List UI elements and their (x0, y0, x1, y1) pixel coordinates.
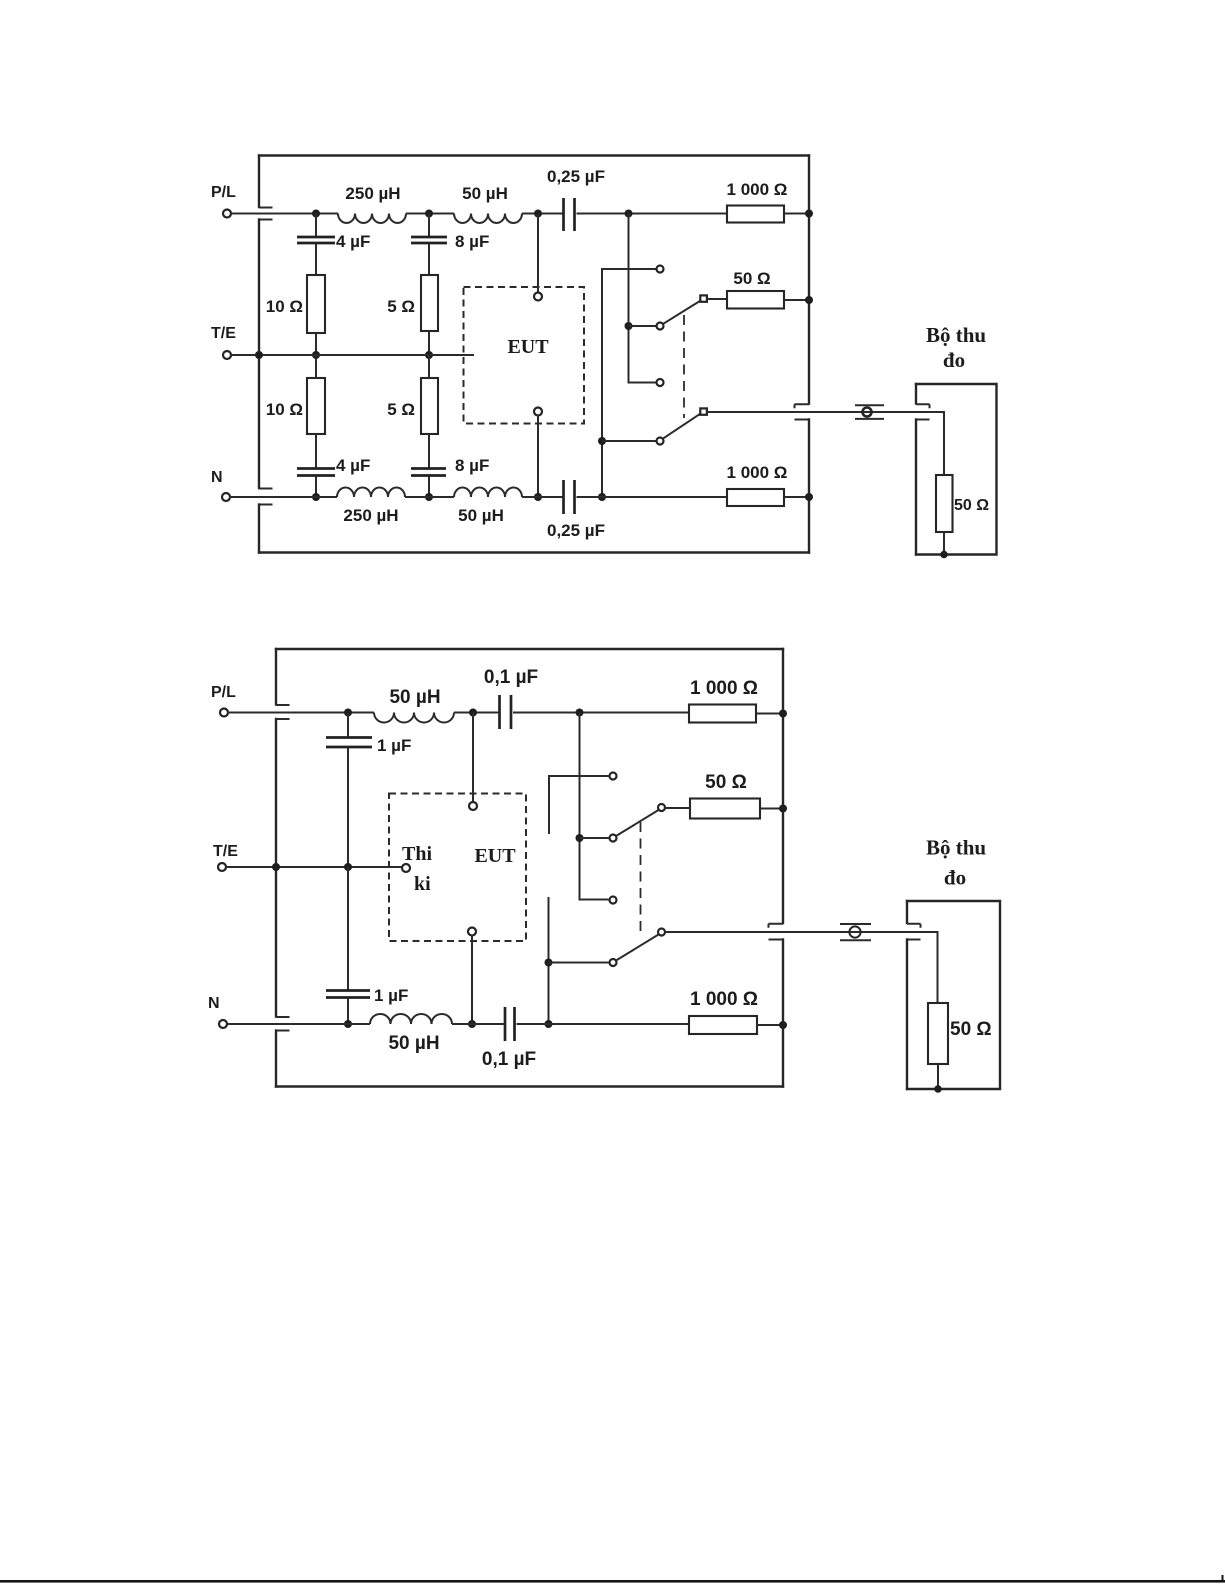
wire N line 2 left segment (227, 1023, 371, 1025)
wire 50 ohm to right wall 2 (760, 808, 783, 810)
switch blade S2a upper (616, 810, 658, 836)
wire 1uF lower to N line 2 (347, 999, 349, 1025)
svg-text:P/L: P/L (211, 184, 236, 201)
svg-text:50 µH: 50 µH (462, 184, 508, 203)
node junction dot N x=602 (598, 493, 606, 501)
wire 50 ohm to right wall (784, 299, 809, 301)
node dot on right wall (50 ohm) (805, 296, 813, 304)
inductor 50 uH (P/L line 2) (374, 713, 454, 723)
contact D (open circle) lower pole (657, 438, 664, 445)
node dot receiver bottom (940, 551, 948, 559)
wire throw T1' to 50 ohm 2 (665, 807, 690, 809)
svg-text:1 µF: 1 µF (374, 986, 408, 1005)
EUT pin circle on T/E lead (Thi ki) (402, 864, 410, 872)
svg-text:đo: đo (943, 348, 965, 372)
wire lower 10 ohm to 4uF (315, 434, 317, 468)
switch mechanical link 2 (dashed) (640, 822, 642, 937)
node junction dot N x=316 (312, 493, 320, 501)
node dot T/E on left wall (255, 351, 263, 359)
terminal N 2 (open circle) (219, 1020, 227, 1028)
wire resistor to shield wall (784, 213, 809, 215)
terminal T/E (open circle) (223, 351, 231, 359)
wire lower 5 ohm to 8uF (428, 434, 430, 468)
coax feedthrough connector symbol 2 (840, 924, 871, 940)
capacitor 1 uF (lower shunt 2) (326, 991, 370, 998)
contact A' (open circle) top fixed contact 2 (610, 773, 617, 780)
svg-text:1 000 Ω: 1 000 Ω (727, 180, 788, 199)
node junction dot T/E2 x=348 (344, 863, 352, 871)
wire 1uF column upper lead (347, 713, 349, 737)
wire between inductors (406, 213, 454, 215)
svg-text:1 µF: 1 µF (377, 736, 411, 755)
shield enclosure box 1 top edge (259, 154, 809, 156)
svg-text:EUT: EUT (474, 845, 516, 867)
svg-text:5 Ω: 5 Ω (387, 297, 415, 316)
measuring receiver box 1 with feedthrough gap (916, 384, 997, 555)
terminal N (open circle) (222, 493, 230, 501)
node junction dot x=548.5 y=962.5 (545, 959, 553, 967)
wire 1uF lower column lead (347, 867, 349, 990)
shield box 2 right wall with output feedthrough gap (769, 649, 784, 1087)
wire to lower pole contact D' (549, 962, 609, 964)
wire switch bus A' corner (upper segment) (549, 776, 609, 834)
capacitor 8 uF (lower shunt) (411, 469, 446, 476)
svg-text:8 µF: 8 µF (455, 232, 489, 251)
svg-text:50 µH: 50 µH (388, 1033, 439, 1054)
svg-text:50 Ω: 50 Ω (705, 772, 747, 793)
resistor 50 ohm (receiver input 2) (928, 1003, 948, 1064)
node junction dot x=628.5 y=326 (625, 322, 633, 330)
switch blade S1b lower (663, 414, 700, 439)
resistor 5 ohm (upper) (421, 275, 438, 331)
svg-text:50 Ω: 50 Ω (733, 269, 770, 288)
wire EUT2 top pin lead (472, 713, 474, 803)
EUT2 top pin (open circle) (469, 802, 477, 810)
resistor 1 000 ohm (N 2) (689, 1016, 757, 1034)
wire EUT2 bottom pin to N line (471, 936, 473, 1025)
wire N2 capacitor to resistor (517, 1023, 690, 1025)
wire N line left segment (230, 496, 338, 498)
capacitor 8 uF (upper shunt) (411, 237, 447, 243)
inductor 50 uH (N line 2) (370, 1014, 452, 1024)
resistor 50 ohm (switched 2) (690, 799, 760, 819)
wire EUT bottom pin to N line (537, 416, 539, 498)
node junction dot N2 x=548.5 (545, 1020, 553, 1028)
node junction dot x=602 y=441 (598, 437, 606, 445)
wire 8uF lower to N line (428, 477, 430, 498)
capacitor 4 uF (lower shunt) (297, 469, 335, 476)
inductor 250 uH (P/L line) (338, 214, 406, 224)
wire N resistor to wall (784, 496, 809, 498)
wire 10 ohm to T/E line (315, 333, 317, 355)
svg-text:1 000 Ω: 1 000 Ω (690, 989, 758, 1010)
wire to coupling capacitor (522, 213, 563, 215)
wire switch bus lower segment to N line 2 (548, 897, 550, 1024)
svg-text:N: N (208, 995, 220, 1012)
svg-text:50 Ω: 50 Ω (950, 1019, 992, 1040)
svg-text:10 Ω: 10 Ω (266, 400, 303, 419)
svg-text:Bộ thu: Bộ thu (926, 323, 986, 347)
svg-text:1 000 Ω: 1 000 Ω (727, 463, 788, 482)
capacitor 0,25 uF (N series) (564, 480, 575, 514)
svg-text:Bộ thu: Bộ thu (926, 836, 986, 860)
wire capacitor to 5 ohm resistor (428, 244, 430, 275)
contact T2' throw (open circle) 2 (658, 929, 665, 936)
EUT dashed box 1 (464, 287, 585, 424)
coax feedthrough connector symbol (855, 405, 884, 419)
node dot receiver bottom 2 (934, 1085, 942, 1093)
label Bo thu do 2 (926, 836, 986, 890)
svg-text:1 000 Ω: 1 000 Ω (690, 678, 758, 699)
node junction dot N x=538 (534, 493, 542, 501)
wire inductor to capacitor 2 (454, 712, 499, 714)
wire switch bus A: corner to N line (602, 269, 657, 497)
measuring receiver box 2 with feedthrough gap (907, 901, 1000, 1089)
wire N2 resistor to wall (757, 1024, 783, 1026)
svg-text:Thi: Thi (402, 843, 432, 865)
wire receiver resistor to box bottom (943, 532, 945, 555)
wire 8uF column upper lead (428, 214, 430, 237)
svg-text:50 Ω: 50 Ω (954, 497, 989, 514)
contact T2 throw (small square) (700, 408, 707, 414)
switch blade S2b lower (616, 935, 658, 961)
wire throw T1 to 50 ohm (707, 298, 727, 300)
contact T1' throw (open circle) 2 (658, 804, 665, 811)
wire N2 to capacitor (452, 1023, 504, 1025)
resistor 5 ohm (lower) (421, 378, 438, 434)
svg-text:0,25 µF: 0,25 µF (547, 167, 605, 186)
svg-text:T/E: T/E (213, 843, 238, 860)
terminal P/L 2 (open circle) (220, 709, 228, 717)
node dot on right wall (N 2) (779, 1021, 787, 1029)
wire 4uF lower to N line (315, 477, 317, 498)
inductor 50 uH (N line) (454, 488, 522, 498)
wire switch pole line from P/L (629, 214, 657, 383)
node dot on right wall (50 ohm 2) (779, 805, 787, 813)
contact B (open circle) upper pole (657, 323, 664, 330)
svg-text:10 Ω: 10 Ω (266, 297, 303, 316)
shield box 2 left wall with P/L and N feedthrough gaps (276, 649, 290, 1087)
capacitor 0,1 uF (P/L series 2) (500, 695, 512, 729)
capacitor 0,1 uF (N series 2) (505, 1007, 515, 1041)
page footer rule (0, 1575, 1225, 1583)
node junction dot P/L2 x=579.5 (switch feed) (576, 709, 584, 717)
svg-text:N: N (211, 469, 223, 486)
node junction dot P/L x=628.5 (switch feed) (625, 210, 633, 218)
wire EUT top pin lead (537, 214, 539, 293)
svg-text:0,25 µF: 0,25 µF (547, 521, 605, 540)
svg-text:EUT: EUT (507, 336, 549, 358)
svg-text:8 µF: 8 µF (455, 456, 489, 475)
shield box 2 bottom edge (276, 1085, 783, 1087)
wire receiver resistor to box bottom 2 (937, 1064, 939, 1089)
EUT dashed box 2 (389, 794, 526, 942)
resistor 1 000 ohm (N) (727, 489, 784, 506)
wire to upper pole contact B (629, 325, 657, 327)
svg-text:P/L: P/L (211, 684, 236, 701)
resistor 50 ohm (receiver input) (936, 475, 953, 532)
resistor 1 000 ohm (P/L 2) (689, 705, 756, 723)
wire T/E line 2 (226, 866, 403, 868)
wire capacitor to resistor 2 (513, 712, 689, 714)
node dot on right wall (P/L 2) (779, 710, 787, 718)
inductor 250 uH (N line) (337, 488, 405, 498)
svg-text:5 Ω: 5 Ω (387, 400, 415, 419)
wire 4uF column upper lead (315, 214, 317, 237)
contact D' (open circle) lower pole 2 (610, 959, 617, 966)
terminal T/E 2 (open circle) (218, 863, 226, 871)
wire to upper pole contact B' (580, 837, 609, 839)
wire P/L line 2 left segment (228, 712, 375, 714)
svg-text:đo: đo (944, 866, 966, 890)
svg-text:ki: ki (414, 873, 431, 895)
node dot T/E2 on left wall (272, 863, 280, 871)
node junction dot P/L x=538 (EUT tap) (534, 210, 542, 218)
node junction dot N2 x=348 (344, 1020, 352, 1028)
resistor 10 ohm (lower) (307, 378, 325, 434)
wire 5 ohm to T/E line (428, 331, 430, 355)
wire P/L line left segment (231, 213, 339, 215)
svg-text:50 µH: 50 µH (389, 687, 440, 708)
label Bo thu do 1 (926, 323, 986, 372)
svg-text:4 µF: 4 µF (336, 456, 370, 475)
wire measuring output 2 through shield wall to receiver (665, 932, 938, 1003)
wire T/E to lower 10 ohm (315, 355, 317, 378)
resistor 1 000 ohm (P/L) (727, 206, 784, 223)
contact B' (open circle) upper pole 2 (610, 835, 617, 842)
node junction dot T/E x=316 (312, 351, 320, 359)
terminal P/L (open circle) (223, 210, 231, 218)
capacitor 1 uF (upper shunt 2) (326, 738, 372, 748)
node dot on right wall (P/L) (805, 210, 813, 218)
node junction dot N2 x=472 (468, 1020, 476, 1028)
node junction dot P/L2 x=348 (344, 709, 352, 717)
switch mechanical link (dashed) (683, 315, 685, 418)
wire T/E line (231, 354, 475, 356)
shield enclosure box 2 top edge (276, 648, 783, 650)
contact T1 throw (small square) (700, 295, 707, 301)
resistor 10 ohm (upper) (307, 275, 325, 333)
wire N capacitor to resistor (577, 496, 728, 498)
node dot on right wall (N) (805, 493, 813, 501)
EUT bottom pin (open circle) (534, 408, 542, 416)
wire N to capacitor (522, 496, 563, 498)
shield box 1 right wall with output feedthrough gap (795, 156, 810, 553)
switch blade S1a upper (663, 301, 700, 324)
node junction dot N x=429 (425, 493, 433, 501)
contact C (open circle) lower fixed contact (657, 379, 664, 386)
contact C' (open circle) lower fixed contact 2 (610, 897, 617, 904)
EUT2 bottom pin (open circle) (468, 928, 476, 936)
svg-text:50 µH: 50 µH (458, 506, 504, 525)
wire 1uF to T/E line 2 (347, 748, 349, 867)
node junction dot P/L x=316 (312, 210, 320, 218)
svg-text:250 µH: 250 µH (343, 506, 398, 525)
node junction dot P/L2 x=473 (EUT tap) (469, 709, 477, 717)
node junction dot T/E x=429 (425, 351, 433, 359)
shield box 1 bottom edge (259, 551, 809, 553)
wire capacitor to 10 ohm resistor (315, 244, 317, 275)
wire resistor to wall 2 (756, 713, 783, 715)
shield box 1 left wall with P/L and N feedthrough gaps (259, 156, 273, 553)
capacitor 0,25 uF (P/L series) (564, 198, 575, 231)
wire to lower pole contact D (602, 440, 657, 442)
contact A (open circle) top fixed contact (657, 266, 664, 273)
node junction dot P/L x=429 (425, 210, 433, 218)
svg-text:250 µH: 250 µH (345, 184, 400, 203)
wire capacitor to resistor (577, 213, 728, 215)
wire switch pole line 2 from P/L (580, 713, 609, 900)
EUT top pin (open circle) (534, 293, 542, 301)
wire measuring output through shield wall to receiver (707, 412, 944, 475)
resistor 50 ohm (switched) (727, 291, 784, 309)
svg-text:0,1 µF: 0,1 µF (482, 1049, 536, 1070)
inductor 50 uH (P/L line) (454, 214, 522, 224)
svg-text:0,1 µF: 0,1 µF (484, 667, 538, 688)
wire T/E to lower 5 ohm (428, 355, 430, 378)
wire between N inductors (405, 496, 454, 498)
svg-text:4 µF: 4 µF (336, 232, 370, 251)
capacitor 4 uF (upper shunt) (297, 237, 335, 243)
node junction dot x=579.5 y=838 (576, 834, 584, 842)
svg-text:T/E: T/E (211, 325, 236, 342)
